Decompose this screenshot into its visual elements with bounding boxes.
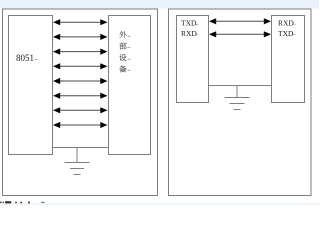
svg-text:←: ← xyxy=(34,57,40,63)
svg-text:8051: 8051 xyxy=(16,53,34,63)
svg-text:←: ← xyxy=(195,21,201,27)
svg-text:←: ← xyxy=(195,32,201,38)
svg-text:←: ← xyxy=(292,21,298,27)
svg-text:←: ← xyxy=(127,56,133,62)
svg-text:←: ← xyxy=(127,33,133,39)
svg-text:←: ← xyxy=(127,67,133,73)
svg-text:←: ← xyxy=(292,32,298,38)
svg-text:←: ← xyxy=(127,44,133,50)
